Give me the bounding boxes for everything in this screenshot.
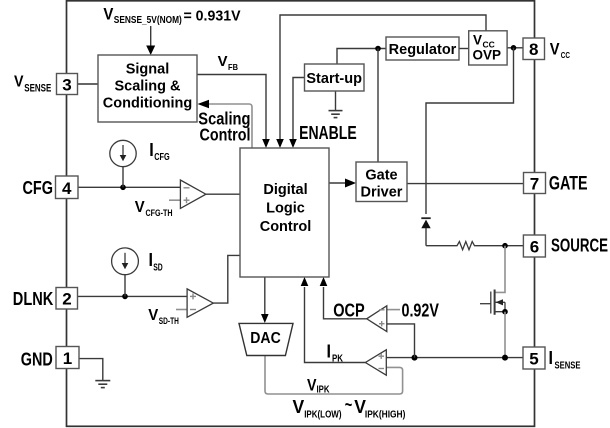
wire pin3 to signal box: [77, 83, 98, 85]
junction Isense node: [502, 355, 508, 361]
svg-text:SD: SD: [153, 262, 163, 273]
pin 2 box: [56, 288, 78, 310]
svg-text:SENSE: SENSE: [555, 361, 581, 372]
label VIPK(LOW) ~ VIPK(HIGH): [293, 395, 406, 421]
startup box: [305, 64, 365, 91]
wire scaling control (gray): [198, 100, 253, 148]
wire DAC output VIPK to IPK comparator minus (gray): [265, 356, 403, 395]
wire regulator node to gate driver: [377, 49, 379, 163]
resistor R1: [450, 242, 482, 250]
svg-text:V: V: [293, 397, 305, 417]
wire digital logic to DAC: [261, 277, 269, 323]
svg-text:SD-TH: SD-TH: [159, 316, 179, 326]
svg-text:Logic: Logic: [266, 201, 305, 217]
junction source node: [502, 243, 508, 249]
diode D1: [421, 218, 430, 246]
pin 7 box: [524, 173, 546, 194]
svg-text:~: ~: [345, 395, 353, 415]
wire regulator to startup: [337, 49, 386, 65]
wire IPK comparator output to digital logic: [301, 277, 366, 363]
wire SD comparator minus stub (gray): [176, 309, 187, 311]
wire Vcc OVP to pin 8: [507, 47, 523, 49]
gate driver box: [356, 162, 407, 202]
wire Isense line to pin 5: [387, 357, 524, 359]
svg-text:IPK(HIGH): IPK(HIGH): [365, 409, 406, 420]
svg-text:Regulator: Regulator: [389, 42, 457, 58]
wire Vcc node to diode: [426, 48, 514, 214]
svg-text:DAC: DAC: [250, 330, 281, 347]
svg-text:V: V: [103, 4, 114, 23]
comparator U4 IPK (left pointing): [365, 350, 386, 375]
svg-text:8: 8: [529, 40, 538, 59]
ground symbol startup: [329, 111, 343, 118]
junction SD node: [122, 294, 128, 300]
junction OCP input node: [412, 355, 418, 361]
wire pin1 to ground: [79, 359, 103, 380]
junction mosfet source node: [502, 309, 508, 315]
svg-text:Control: Control: [260, 219, 312, 235]
wire VFB signal box to digital logic: [197, 75, 270, 149]
svg-text:I: I: [327, 342, 332, 362]
wire OCP minus stub 0.92V (gray): [387, 309, 400, 311]
wire startup to digital logic (ENABLE): [289, 78, 304, 149]
label ICFG: [149, 140, 170, 163]
wire OCP plus input: [387, 324, 415, 358]
svg-text:GATE: GATE: [549, 173, 588, 194]
pin 4 box: [56, 176, 79, 199]
pin 8 box: [523, 38, 545, 60]
svg-text:IPK: IPK: [317, 385, 331, 396]
svg-text:Gate: Gate: [365, 168, 397, 184]
junction CFG node: [120, 185, 126, 191]
svg-text:6: 6: [530, 237, 539, 256]
label GND: [21, 350, 53, 370]
label VSENSE_5V(NOM) = 0.931V: [103, 4, 240, 26]
svg-text:CC: CC: [561, 50, 570, 60]
svg-text:ENABLE: ENABLE: [299, 122, 357, 143]
svg-text:IPK(LOW): IPK(LOW): [304, 409, 341, 420]
label IPK: [327, 342, 344, 365]
wire OCP output to digital logic: [320, 277, 367, 319]
svg-text:Driver: Driver: [361, 185, 403, 201]
svg-text:V: V: [135, 199, 145, 216]
svg-text:SENSE_5V(NOM): SENSE_5V(NOM): [114, 15, 182, 26]
svg-text:Control: Control: [200, 125, 251, 145]
current source ISD: [112, 248, 139, 275]
svg-text:Start-up: Start-up: [306, 71, 362, 87]
label ISENSE: [549, 348, 581, 372]
label 0.92V: [402, 301, 439, 321]
wire SD comparator output to digital logic: [213, 255, 240, 303]
label VFB: [218, 54, 238, 72]
svg-text:5: 5: [529, 350, 538, 369]
wire mosfet source to Isense node (gray): [504, 312, 506, 358]
svg-text:CFG: CFG: [154, 152, 170, 163]
IC outline box: [67, 1, 535, 427]
svg-text:CFG-TH: CFG-TH: [146, 208, 173, 218]
svg-text:1: 1: [63, 349, 72, 368]
label VSD-TH: [148, 307, 179, 326]
junction regulator node: [375, 46, 381, 52]
wire CFG current source to node: [122, 167, 124, 188]
pin 3 box: [57, 74, 78, 95]
label CFG: [23, 178, 54, 198]
svg-text:OCP: OCP: [333, 301, 365, 321]
regulator box: [386, 37, 459, 60]
svg-text:Conditioning: Conditioning: [103, 96, 192, 112]
signal scaling and conditioning box: [98, 55, 197, 122]
Vcc OVP box: [469, 31, 507, 65]
svg-text:Digital: Digital: [263, 182, 307, 198]
comparator U2 SD: [187, 289, 213, 317]
comparator U1 CFG: [180, 180, 206, 208]
label VCFG-TH: [135, 199, 173, 218]
pin 6 box: [523, 235, 545, 257]
label SOURCE: [551, 234, 608, 255]
wire source node to mosfet drain (gray): [495, 246, 505, 293]
label ISD: [149, 250, 163, 273]
svg-text:V: V: [473, 33, 482, 48]
svg-text:PK: PK: [332, 354, 344, 365]
svg-text:V: V: [550, 40, 560, 59]
svg-text:SOURCE: SOURCE: [551, 234, 608, 255]
wire CFG comparator output: [206, 193, 240, 195]
pin 5 box: [523, 347, 545, 369]
transistor Q1 sense mosfet: [480, 290, 505, 315]
wire top enable line to digital logic: [276, 15, 486, 148]
wire SD current source to node: [124, 275, 126, 297]
pin 1 box: [56, 347, 79, 369]
wire CFG comparator plus stub (gray): [169, 199, 180, 201]
wire digital logic to gate driver: [329, 179, 356, 188]
svg-text:7: 7: [530, 175, 539, 194]
label VSENSE: [14, 74, 51, 95]
svg-text:Scaling &: Scaling &: [114, 79, 181, 95]
ground symbol GND pin: [95, 381, 110, 388]
svg-text:GND: GND: [21, 350, 53, 370]
wire regulator to Vcc OVP: [459, 48, 469, 50]
svg-text:V: V: [14, 74, 24, 91]
label VCC pin 8: [550, 40, 570, 60]
svg-text:OVP: OVP: [473, 48, 502, 63]
junction Vcc node: [511, 45, 517, 51]
label OCP: [333, 301, 365, 321]
wire startup to ground: [335, 91, 337, 110]
label ENABLE: [299, 122, 357, 143]
svg-text:V: V: [148, 307, 158, 324]
label Scaling Control: [198, 108, 250, 144]
label DLNK: [13, 289, 54, 309]
svg-text:3: 3: [62, 75, 71, 94]
svg-text:0.92V: 0.92V: [402, 301, 439, 321]
svg-text:FB: FB: [228, 62, 238, 72]
svg-text:V: V: [218, 54, 228, 70]
svg-text:4: 4: [62, 179, 72, 198]
wire pin4 to CFG comparator: [78, 186, 180, 188]
wire pin2 to SD comparator: [78, 295, 187, 297]
svg-text:I: I: [149, 140, 154, 160]
wire resistor to pin 6: [482, 245, 523, 247]
digital logic control box: [240, 148, 329, 277]
DAC block: [239, 323, 293, 355]
wire Vsense 5V nominal arrow into signal box: [146, 26, 155, 55]
current source ICFG: [110, 140, 136, 166]
label GATE: [549, 173, 588, 194]
svg-text:I: I: [549, 348, 554, 368]
comparator U3 OCP (left pointing): [367, 306, 387, 332]
svg-text:CFG: CFG: [23, 178, 54, 198]
label VIPK: [307, 375, 330, 395]
svg-text:Signal: Signal: [126, 62, 170, 78]
svg-text:= 0.931V: = 0.931V: [184, 8, 241, 24]
svg-text:2: 2: [62, 290, 71, 309]
wire diode to resistor: [426, 245, 450, 247]
svg-text:DLNK: DLNK: [13, 289, 54, 309]
svg-text:SENSE: SENSE: [24, 82, 51, 94]
wire gate driver to pin 7: [407, 183, 524, 185]
